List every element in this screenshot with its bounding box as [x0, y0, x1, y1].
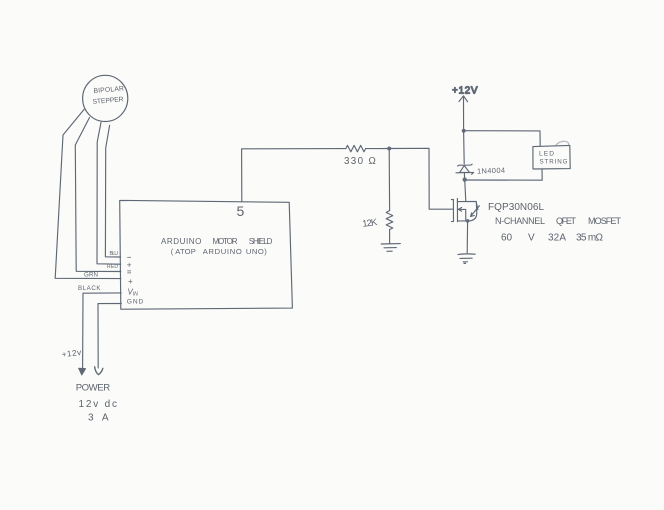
svg-text:ARDUINO: ARDUINO [203, 247, 242, 256]
LED string box [533, 145, 570, 169]
svg-text:MOSFET: MOSFET [588, 216, 622, 226]
svg-text:5: 5 [237, 203, 245, 219]
wire stepper BLU [105, 126, 120, 258]
wire node B to LED string top [464, 131, 541, 147]
svg-text:FQP30N06L: FQP30N06L [488, 202, 544, 213]
svg-text:( ATOP: ( ATOP [171, 247, 196, 256]
wire stepper GRN [75, 118, 121, 272]
svg-text:V: V [528, 233, 535, 244]
wire node A down to R2 [388, 149, 390, 211]
mosfet Q1 source/body stub with arrow [458, 209, 466, 221]
wire stepper BLACK [55, 110, 121, 279]
svg-text:=: = [127, 268, 132, 277]
wire VIN to power [83, 293, 122, 368]
mosfet Q1 channel bar [456, 198, 458, 221]
svg-text:MOTOR: MOTOR [213, 237, 238, 246]
svg-text:+12V: +12V [452, 86, 478, 97]
svg-text:+: + [128, 277, 133, 286]
mosfet Q1 body diode scribble [471, 204, 480, 217]
wire node A to mosfet gate [389, 148, 453, 209]
ground GND2 under Q1 [458, 253, 475, 256]
wire R1 to node A [366, 148, 389, 150]
label BIPOLAR STEPPER [92, 85, 124, 106]
svg-text:1N4004: 1N4004 [477, 166, 505, 176]
arrow GND down [95, 367, 103, 375]
diode D1 anode lead bar [456, 172, 474, 174]
wire stepper RED [97, 123, 121, 265]
svg-text:UNO): UNO) [246, 247, 267, 256]
wire R2 to ground [389, 230, 391, 244]
svg-text:STRING: STRING [540, 158, 568, 165]
wire node C to mosfet drain [465, 180, 466, 202]
mosfet Q1 drain stub [457, 202, 476, 221]
resistor R2 12K zigzag [386, 211, 393, 230]
wire node B to diode D1 [463, 131, 466, 164]
wire +12V down to node B [463, 98, 465, 131]
svg-text:BLACK: BLACK [78, 285, 101, 292]
svg-text:32A: 32A [548, 233, 566, 244]
ground GND1 under R2 [381, 243, 400, 245]
svg-text:60: 60 [501, 233, 513, 244]
svg-text:ARDUINO: ARDUINO [161, 237, 201, 246]
svg-text:GRN: GRN [84, 272, 98, 279]
svg-text:N-CHANNEL: N-CHANNEL [495, 216, 545, 226]
svg-text:LED: LED [539, 150, 554, 157]
svg-text:RED: RED [107, 264, 118, 270]
node C junction dot [463, 177, 467, 181]
node A junction dot [387, 147, 391, 151]
arduino shield U1 box [120, 200, 293, 309]
resistor R1 330 zigzag [346, 145, 366, 151]
mosfet Q1 bottom stub [458, 220, 471, 222]
arrow VIN down [79, 368, 86, 375]
wire GND to power [98, 304, 121, 369]
svg-text:330 Ω: 330 Ω [344, 156, 376, 167]
diode D1 1N4004 cathode bar [458, 164, 473, 166]
wire LED string bottom to node C [466, 169, 542, 180]
node source junction dot [466, 219, 470, 223]
svg-text:BLU: BLU [110, 251, 119, 257]
motor M1 bipolar stepper body [83, 75, 128, 121]
arrow up +12V [459, 96, 468, 102]
mosfet Q1 gate bar [451, 199, 453, 221]
diode D1 triangle [460, 166, 470, 173]
svg-text:12K: 12K [362, 216, 379, 229]
svg-text:QFET: QFET [556, 216, 577, 226]
svg-text:3 A: 3 A [88, 412, 109, 423]
svg-text:SHIELD: SHIELD [249, 237, 273, 246]
node B junction dot [462, 129, 466, 133]
svg-text:GND: GND [127, 299, 144, 306]
svg-text:35 mΩ: 35 mΩ [576, 233, 604, 244]
wire pin5 riser [242, 149, 346, 202]
wire mosfet source to ground [466, 221, 468, 253]
smudge above LED box [556, 141, 569, 145]
wire diode to node C [463, 173, 465, 180]
svg-text:POWER: POWER [76, 382, 111, 393]
